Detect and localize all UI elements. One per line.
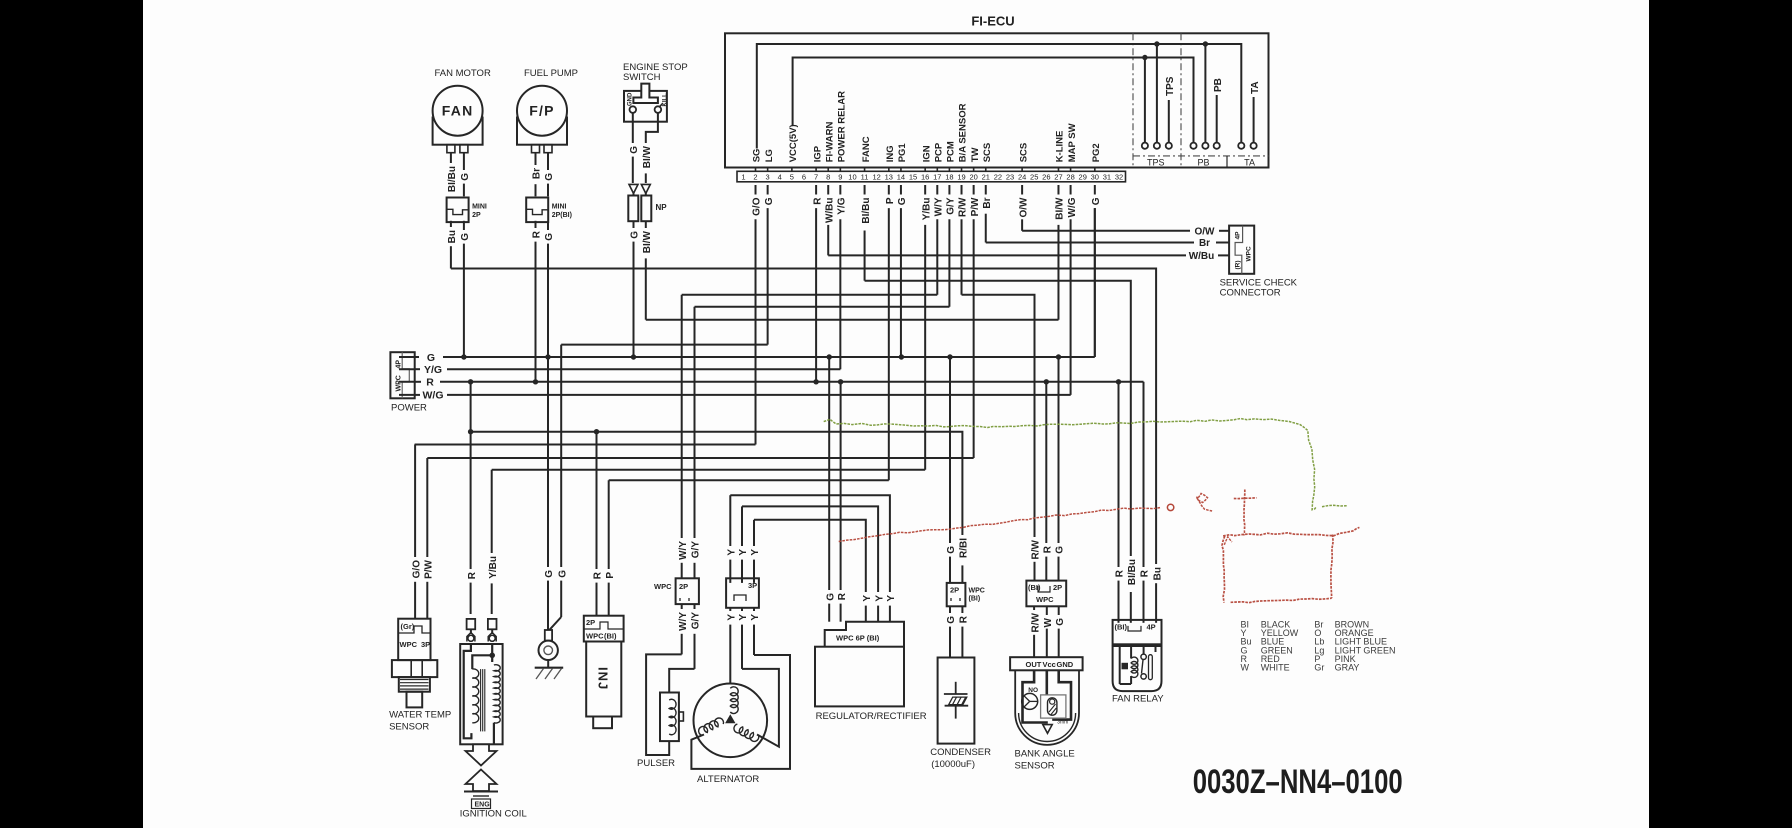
svg-text:R: R (467, 571, 478, 579)
svg-text:G: G (460, 233, 471, 241)
svg-text:Y: Y (738, 549, 749, 556)
svg-text:Y/G: Y/G (424, 364, 442, 376)
svg-text:9: 9 (838, 172, 842, 181)
svg-text:4P: 4P (396, 360, 403, 369)
svg-text:G: G (1055, 546, 1066, 554)
svg-text:W/G: W/G (1067, 197, 1078, 217)
svg-text:W/Bu: W/Bu (824, 198, 835, 224)
svg-text:4: 4 (778, 172, 782, 181)
svg-text:WPC: WPC (400, 640, 418, 649)
svg-text:SCS: SCS (982, 143, 993, 163)
svg-text:BI/W: BI/W (642, 230, 653, 253)
svg-text:2P: 2P (472, 212, 481, 219)
svg-text:2P(BI): 2P(BI) (552, 212, 572, 219)
svg-text:11: 11 (861, 172, 869, 181)
svg-text:BI/Bu: BI/Bu (1127, 559, 1138, 585)
svg-text:(Gr): (Gr) (401, 622, 415, 631)
svg-text:R/BI: R/BI (959, 538, 970, 558)
svg-text:2P: 2P (679, 582, 688, 591)
svg-text:(BI): (BI) (604, 632, 617, 641)
svg-text:MINI: MINI (472, 204, 487, 211)
svg-text:W: W (1241, 663, 1250, 673)
svg-text:23: 23 (1006, 172, 1014, 181)
svg-text:3P: 3P (748, 581, 757, 590)
svg-text:BI/Bu: BI/Bu (447, 166, 458, 192)
svg-text:P: P (885, 197, 896, 204)
svg-text:W/Y: W/Y (933, 197, 944, 216)
svg-text:TW: TW (970, 147, 981, 162)
svg-text:G/O: G/O (411, 560, 422, 579)
svg-text:3: 3 (766, 172, 770, 181)
svg-text:TA: TA (1250, 81, 1261, 94)
svg-text:Y: Y (750, 614, 761, 621)
svg-text:(BI): (BI) (969, 596, 981, 603)
svg-text:FUEL PUMP: FUEL PUMP (524, 68, 578, 79)
svg-text:O/W: O/W (1018, 197, 1029, 218)
svg-text:Y: Y (750, 549, 761, 556)
svg-text:5: 5 (790, 172, 794, 181)
svg-text:INJ: INJ (596, 667, 611, 690)
svg-text:KILL: KILL (663, 93, 669, 107)
svg-text:IGNITION COIL: IGNITION COIL (460, 809, 527, 820)
svg-text:G: G (557, 570, 568, 578)
svg-text:SENSOR: SENSOR (1015, 761, 1055, 772)
svg-text:G: G (946, 546, 957, 554)
svg-text:VCC(5V): VCC(5V) (788, 124, 799, 162)
svg-text:18: 18 (945, 172, 953, 181)
svg-text:WPC: WPC (654, 582, 672, 591)
svg-text:GND: GND (628, 92, 634, 106)
svg-text:ING: ING (885, 145, 896, 162)
svg-text:WPC 6P (BI): WPC 6P (BI) (836, 634, 880, 643)
svg-text:W: W (1043, 617, 1054, 627)
svg-text:4P: 4P (1235, 231, 1242, 240)
svg-text:WPC: WPC (586, 632, 604, 641)
svg-text:SCS: SCS (1018, 143, 1029, 163)
svg-text:G: G (427, 352, 435, 364)
svg-text:G: G (825, 593, 836, 601)
svg-text:Y: Y (874, 595, 885, 602)
svg-text:F/P: F/P (529, 103, 554, 119)
svg-text:B/A SENSOR: B/A SENSOR (958, 103, 969, 162)
svg-text:2: 2 (753, 172, 757, 181)
svg-text:WPC: WPC (1246, 246, 1253, 261)
svg-text:POWER: POWER (391, 403, 427, 414)
svg-text:G: G (1055, 618, 1066, 626)
svg-text:19: 19 (957, 172, 965, 181)
svg-text:30: 30 (1091, 172, 1099, 181)
svg-text:PB: PB (1197, 157, 1209, 167)
svg-text:0030Z–NN4–0100: 0030Z–NN4–0100 (1193, 763, 1403, 801)
svg-text:IGN: IGN (921, 145, 932, 162)
svg-text:WHITE: WHITE (1261, 663, 1290, 673)
svg-text:(BI): (BI) (1115, 623, 1128, 632)
svg-text:ALTERNATOR: ALTERNATOR (697, 774, 759, 785)
svg-text:2P: 2P (586, 618, 595, 627)
svg-text:28: 28 (1066, 172, 1074, 181)
svg-text:PG1: PG1 (897, 143, 908, 163)
svg-text:Bu: Bu (1152, 567, 1163, 580)
svg-text:BI/W: BI/W (1055, 197, 1066, 220)
svg-text:BI/Bu: BI/Bu (861, 198, 872, 224)
svg-text:GRAY: GRAY (1335, 663, 1360, 673)
svg-text:G: G (630, 231, 641, 239)
svg-text:SENSOR: SENSOR (389, 722, 429, 733)
svg-text:G: G (897, 197, 908, 205)
svg-text:R/W: R/W (1031, 539, 1042, 559)
svg-text:Y/Bu: Y/Bu (488, 556, 499, 579)
svg-text:4P: 4P (1147, 623, 1156, 632)
svg-text:TPS: TPS (1165, 76, 1176, 96)
svg-text:G: G (544, 570, 555, 578)
svg-text:Br: Br (532, 168, 543, 179)
svg-text:SG: SG (752, 149, 763, 163)
svg-text:TPS: TPS (1147, 157, 1165, 167)
svg-text:3P: 3P (421, 640, 430, 649)
svg-text:CONDENSER: CONDENSER (930, 747, 991, 758)
svg-text:R: R (1115, 569, 1126, 577)
svg-text:27: 27 (1054, 172, 1062, 181)
svg-text:SWITCH: SWITCH (623, 72, 661, 83)
svg-text:16: 16 (921, 172, 929, 181)
svg-text:TA: TA (1244, 157, 1255, 167)
svg-text:G/Y: G/Y (946, 197, 957, 215)
svg-text:OUT: OUT (1026, 660, 1042, 669)
svg-text:8: 8 (826, 172, 830, 181)
svg-text:WPC: WPC (969, 588, 985, 595)
svg-text:REGULATOR/RECTIFIER: REGULATOR/RECTIFIER (816, 711, 927, 722)
svg-text:Y: Y (727, 614, 738, 621)
svg-text:R/W: R/W (958, 197, 969, 217)
svg-text:Br: Br (982, 197, 993, 208)
svg-text:R: R (837, 592, 848, 600)
svg-text:(BI): (BI) (1028, 583, 1041, 592)
svg-text:R: R (1043, 545, 1054, 553)
svg-text:G: G (629, 146, 640, 154)
svg-text:G: G (1091, 197, 1102, 205)
svg-text:Y: Y (886, 595, 897, 602)
svg-text:BANK ANGLE: BANK ANGLE (1015, 749, 1075, 760)
svg-text:PG2: PG2 (1091, 143, 1102, 162)
svg-text:24: 24 (1018, 172, 1026, 181)
svg-text:32: 32 (1115, 172, 1123, 181)
svg-text:W/Y: W/Y (678, 541, 689, 560)
svg-text:W/Y: W/Y (678, 612, 689, 631)
svg-text:POWER RELAR: POWER RELAR (837, 91, 848, 162)
svg-text:13: 13 (885, 172, 893, 181)
svg-text:FAN MOTOR: FAN MOTOR (435, 68, 491, 79)
svg-text:FAN RELAY: FAN RELAY (1112, 694, 1164, 705)
svg-text:R: R (1140, 569, 1151, 577)
svg-text:R: R (812, 197, 823, 205)
svg-text:MAP SW: MAP SW (1067, 123, 1078, 162)
svg-text:20: 20 (969, 172, 977, 181)
svg-text:Y: Y (727, 549, 738, 556)
svg-text:Vcc: Vcc (1043, 660, 1056, 669)
svg-text:ENG: ENG (475, 802, 491, 809)
svg-text:K-LINE: K-LINE (1055, 131, 1066, 163)
svg-text:CONNECTOR: CONNECTOR (1220, 288, 1281, 299)
svg-text:26: 26 (1042, 172, 1050, 181)
svg-text:FI-WARN: FI-WARN (824, 122, 835, 163)
svg-text:G: G (764, 197, 775, 205)
svg-text:R: R (532, 230, 543, 238)
svg-text:PCP: PCP (933, 142, 944, 162)
svg-text:Y: Y (862, 595, 873, 602)
svg-text:Br: Br (1199, 238, 1210, 249)
svg-text:IGP: IGP (812, 145, 823, 162)
svg-text:NP: NP (656, 203, 668, 212)
svg-text:P/W: P/W (970, 197, 981, 216)
svg-text:6: 6 (802, 172, 806, 181)
svg-text:PCM: PCM (946, 141, 957, 162)
svg-text:15: 15 (909, 172, 917, 181)
svg-text:17: 17 (933, 172, 941, 181)
svg-text:W/Bu: W/Bu (1189, 251, 1215, 262)
svg-text:22: 22 (994, 172, 1002, 181)
svg-text:FI-ECU: FI-ECU (971, 14, 1014, 29)
svg-text:31: 31 (1103, 172, 1111, 181)
svg-text:G/Y: G/Y (691, 541, 702, 559)
svg-text:P/W: P/W (424, 559, 435, 578)
svg-text:2P: 2P (1053, 583, 1062, 592)
svg-text:(10000uF): (10000uF) (931, 759, 975, 770)
svg-text:Y/G: Y/G (837, 197, 848, 214)
svg-text:WATER TEMP: WATER TEMP (389, 710, 451, 721)
svg-text:WPC: WPC (396, 375, 403, 391)
svg-text:25: 25 (1030, 172, 1038, 181)
svg-text:2P: 2P (950, 586, 959, 595)
svg-text:1: 1 (741, 172, 745, 181)
svg-text:14: 14 (897, 172, 905, 181)
svg-text:G: G (946, 616, 957, 624)
svg-text:G/O: G/O (752, 197, 763, 216)
svg-text:BI/W: BI/W (642, 145, 653, 168)
svg-text:P: P (605, 572, 616, 579)
svg-text:3mm: 3mm (1057, 720, 1068, 726)
svg-text:R: R (426, 377, 434, 389)
svg-text:7: 7 (814, 172, 818, 181)
svg-text:FANC: FANC (861, 136, 872, 162)
svg-text:G: G (544, 233, 555, 241)
svg-text:W/G: W/G (423, 390, 444, 402)
svg-text:G/Y: G/Y (691, 612, 702, 630)
svg-text:LG: LG (764, 149, 775, 162)
svg-text:MINI: MINI (552, 204, 567, 211)
svg-text:G: G (544, 173, 555, 181)
svg-text:PULSER: PULSER (637, 758, 675, 769)
svg-text:WPC: WPC (1036, 595, 1054, 604)
svg-text:O/W: O/W (1195, 227, 1216, 238)
svg-text:GND: GND (1057, 660, 1074, 669)
svg-text:R: R (959, 615, 970, 623)
svg-text:R: R (593, 571, 604, 579)
svg-text:Gr: Gr (1314, 663, 1324, 673)
svg-text:Bu: Bu (447, 230, 458, 243)
svg-text:FAN: FAN (442, 103, 474, 119)
svg-text:12: 12 (873, 172, 881, 181)
svg-text:G: G (460, 173, 471, 181)
svg-text:Y: Y (738, 614, 749, 621)
svg-text:(R): (R) (1235, 260, 1242, 269)
svg-text:29: 29 (1079, 172, 1087, 181)
svg-text:PB: PB (1213, 78, 1224, 92)
svg-text:21: 21 (982, 172, 990, 181)
svg-text:R/W: R/W (1030, 612, 1041, 632)
svg-text:Y/Bu: Y/Bu (921, 198, 932, 221)
svg-text:10: 10 (848, 172, 856, 181)
